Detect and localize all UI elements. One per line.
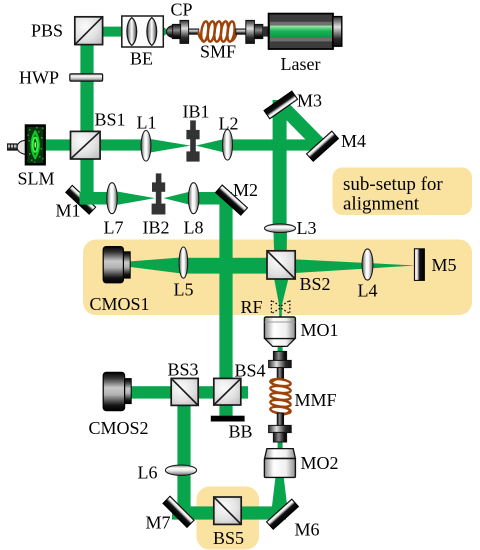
svg-text:MO2: MO2 xyxy=(301,453,339,473)
yellow highlight band: alignment arm row (CMOS1..M5) xyxy=(83,240,472,316)
wire: beam PBS down through HWP to BS1 xyxy=(80,29,93,145)
beam splitter PBS xyxy=(75,17,103,45)
wire: beam BS3 to CMOS2 and BS3 to BS4 xyxy=(129,386,248,398)
svg-text:L8: L8 xyxy=(184,218,204,238)
pinhole RF (dotted) xyxy=(271,300,289,313)
wire: beam BS2 to L5 xyxy=(184,258,282,274)
half-wave plate HWP xyxy=(70,74,103,81)
lens L7 xyxy=(107,183,117,214)
lens L4 xyxy=(362,249,373,280)
fiber port below MO1 xyxy=(269,351,292,379)
SLM (spatial light modulator) xyxy=(8,126,45,165)
wire: beam MO2 diverging down to M6 xyxy=(271,476,287,511)
wire: beam PBS to BE xyxy=(95,27,125,37)
beam splitter BS5 xyxy=(214,497,241,524)
mirror M2 xyxy=(216,185,248,215)
lens L6 xyxy=(165,465,196,475)
camera CMOS1 xyxy=(103,247,130,283)
svg-text:BS3: BS3 xyxy=(168,360,199,380)
iris IB1 xyxy=(186,120,199,161)
svg-text:IB2: IB2 xyxy=(143,218,170,238)
svg-text:L1: L1 xyxy=(137,113,157,133)
wire: focused beam through RF into MO1 xyxy=(279,305,282,319)
mirror M4 xyxy=(307,131,339,161)
wire: beam L3 into BS2 xyxy=(273,228,287,265)
wire: beam L2 to M4 xyxy=(228,139,320,150)
svg-text:MO1: MO1 xyxy=(301,320,339,340)
fiber SMF (single-mode fiber coil) xyxy=(198,21,236,42)
svg-text:MMF: MMF xyxy=(295,390,337,410)
yellow highlight: sub-setup for alignment label box xyxy=(333,168,473,216)
beam splitter BS4 xyxy=(214,378,241,405)
wire: beam M7 up through L6 to BS3 xyxy=(177,390,190,511)
svg-text:IB1: IB1 xyxy=(183,102,210,122)
fiber port above MO2 xyxy=(269,413,292,442)
svg-text:L4: L4 xyxy=(358,281,378,301)
fiber coupler at laser xyxy=(236,20,270,43)
mirror M3 xyxy=(264,91,298,119)
wire: beam L5 converging into CMOS1 xyxy=(131,257,184,274)
mirror M5 xyxy=(414,249,424,281)
beam splitter BS2 xyxy=(267,251,295,279)
svg-text:HWP: HWP xyxy=(19,68,59,88)
wire: beam SLM to BS1 to L1 xyxy=(44,139,148,150)
svg-text:M3: M3 xyxy=(297,91,322,111)
wire: diagonal beam M4 to M3 xyxy=(280,104,323,148)
wire: beam BS2 converging down to RF xyxy=(274,278,289,306)
svg-text:BE: BE xyxy=(130,49,153,69)
microscope objective MO1 xyxy=(264,317,295,346)
svg-text:PBS: PBS xyxy=(31,21,63,41)
svg-text:SLM: SLM xyxy=(18,169,55,189)
lens L3 xyxy=(265,224,296,233)
wire: beam L8 to M2 xyxy=(194,192,233,205)
wire: beam BE to CP (converging) xyxy=(163,27,170,37)
svg-text:L3: L3 xyxy=(297,218,317,238)
mirror M6 xyxy=(267,499,299,529)
wire: beam M6 to BS5 to M7 xyxy=(172,506,286,519)
lens L8 xyxy=(188,183,198,214)
camera CMOS2 xyxy=(103,372,131,410)
wire: beam fiber port into MO2 xyxy=(278,441,283,451)
wire: beam BS1 down to M1 xyxy=(80,145,93,205)
svg-text:BS4: BS4 xyxy=(235,361,266,381)
microscope objective MO2 xyxy=(264,449,295,478)
wire: beam M1 to L7 xyxy=(80,192,114,205)
beam splitter BS1 xyxy=(71,131,101,159)
svg-text:SMF: SMF xyxy=(200,42,236,62)
svg-text:CMOS1: CMOS1 xyxy=(90,294,150,314)
svg-text:M7: M7 xyxy=(146,513,171,533)
svg-text:M4: M4 xyxy=(341,131,366,151)
iris IB2 xyxy=(152,173,166,214)
svg-text:M2: M2 xyxy=(233,180,258,200)
laser head xyxy=(269,14,342,49)
lens L1 xyxy=(141,131,151,162)
svg-text:Laser: Laser xyxy=(281,54,321,74)
wire: beam M3 down to L3 xyxy=(273,100,287,230)
svg-text:L6: L6 xyxy=(138,463,158,483)
beam expander BE xyxy=(122,16,164,47)
svg-text:L2: L2 xyxy=(219,114,239,134)
svg-text:BS2: BS2 xyxy=(300,274,331,294)
svg-text:BS5: BS5 xyxy=(213,528,244,548)
svg-text:RF: RF xyxy=(241,297,263,317)
fiber MMF (multi-mode fiber coil) xyxy=(270,378,291,415)
svg-text:sub-setup for: sub-setup for xyxy=(343,174,443,195)
wire: beam IB1 diverging to L2 xyxy=(196,138,228,153)
wire: beam IB2 diverging to L8 xyxy=(164,191,195,206)
svg-text:CP: CP xyxy=(171,0,193,20)
wire: beam L1 converging to IB1 xyxy=(146,138,191,153)
mirror M1 xyxy=(66,185,96,214)
wire: beam L7 converging to IB2 xyxy=(112,191,155,206)
svg-text:alignment: alignment xyxy=(343,194,420,215)
wire: beam BS2 through L4 converging to M5 xyxy=(283,259,416,274)
svg-text:BB: BB xyxy=(229,422,253,442)
svg-text:M1: M1 xyxy=(56,201,81,221)
lens L2 xyxy=(223,130,233,161)
mirror M7 xyxy=(163,496,194,527)
fiber coupler CP xyxy=(167,20,199,43)
beam splitter BS3 xyxy=(171,378,198,405)
svg-text:BS1: BS1 xyxy=(95,110,126,130)
yellow highlight box: BS5 xyxy=(197,487,260,550)
svg-text:M5: M5 xyxy=(432,255,457,275)
lens L5 xyxy=(179,247,188,278)
svg-text:L5: L5 xyxy=(174,280,194,300)
svg-text:L7: L7 xyxy=(104,218,124,238)
wire: beam MO1 focused to fiber port xyxy=(278,344,283,354)
svg-text:M6: M6 xyxy=(295,520,320,540)
svg-text:CMOS2: CMOS2 xyxy=(89,418,149,438)
beam block BB xyxy=(211,416,245,422)
wire: beam M2 down to BS4 and BB xyxy=(219,198,232,416)
